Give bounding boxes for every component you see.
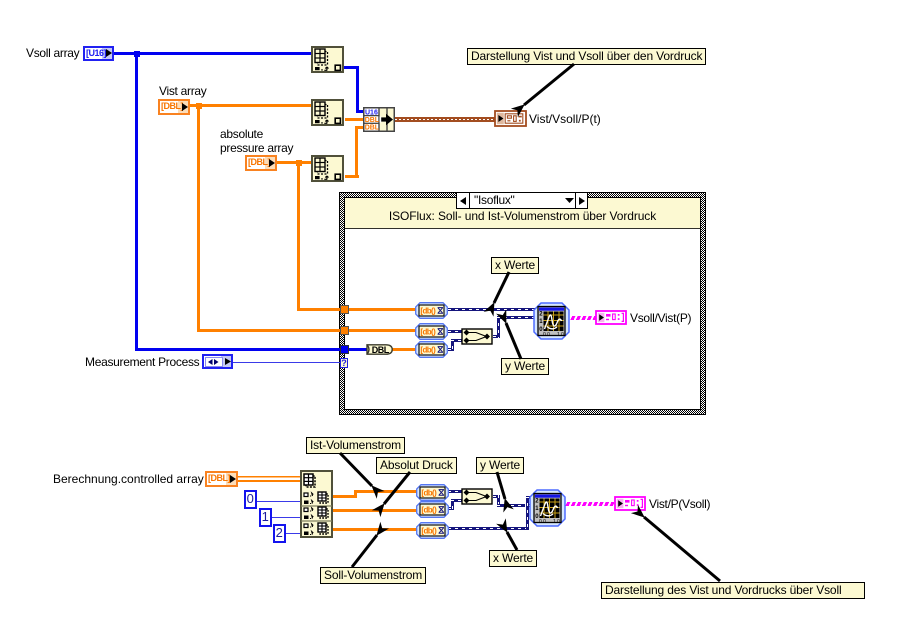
svg-text:0.0: 0.0 — [543, 332, 550, 338]
svg-text:U16: U16 — [365, 109, 378, 116]
svg-text:[db(): [db() — [421, 505, 437, 514]
svg-text:1.0: 1.0 — [553, 519, 560, 525]
svg-text:[db(): [db() — [420, 306, 436, 315]
svg-text:0.0: 0.0 — [539, 519, 546, 525]
svg-text:1.0: 1.0 — [557, 332, 564, 338]
svg-text:DBL: DBL — [365, 125, 380, 132]
svg-text:[db(): [db() — [421, 488, 437, 497]
svg-text:[db(): [db() — [420, 327, 436, 336]
svg-text:[db(): [db() — [421, 526, 437, 535]
svg-text:DBL: DBL — [365, 117, 380, 124]
svg-text:DBL: DBL — [372, 345, 390, 355]
svg-text:[db(): [db() — [420, 345, 436, 354]
